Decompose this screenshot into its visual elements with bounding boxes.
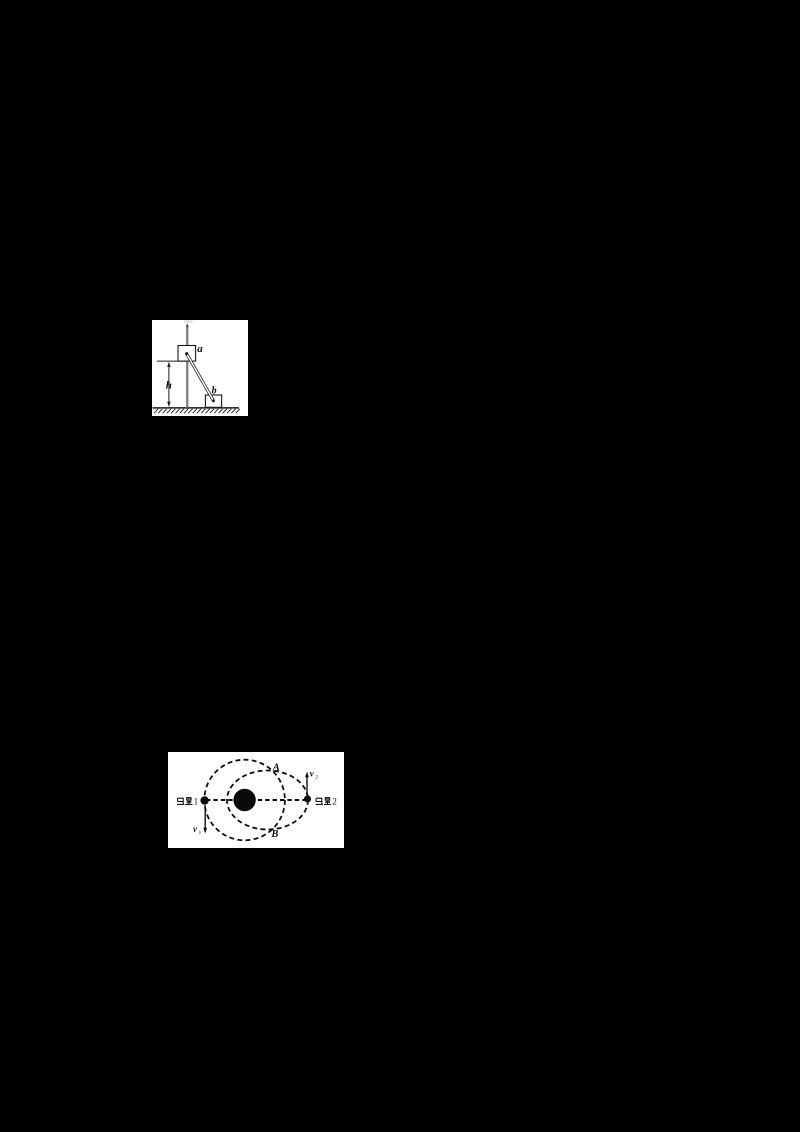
svg-text:1: 1 [199,830,202,836]
svg-text:a: a [197,343,203,355]
svg-text:v: v [193,824,198,834]
svg-text:A: A [272,762,280,773]
svg-text:2: 2 [315,774,318,780]
svg-text:2: 2 [332,796,337,806]
svg-text:v: v [310,768,315,778]
svg-text:B: B [270,828,278,839]
svg-text:h: h [166,379,172,391]
svg-text:1: 1 [194,796,199,806]
svg-text:b: b [212,386,217,397]
